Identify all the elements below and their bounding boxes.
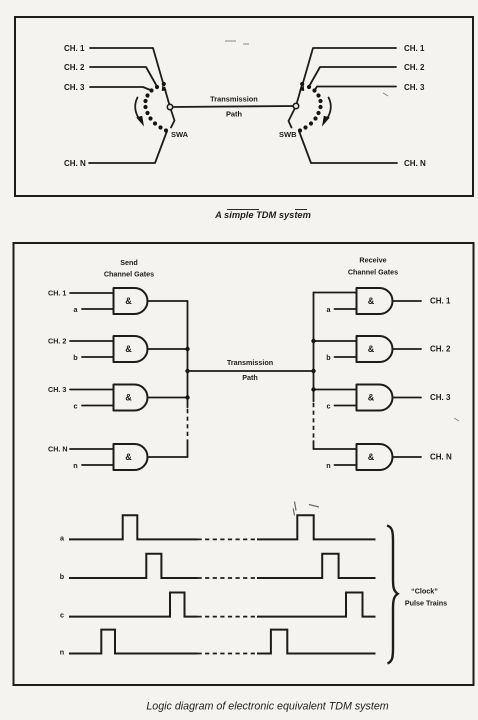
svg-text:CH. 1: CH. 1 bbox=[404, 44, 425, 53]
svg-text:b: b bbox=[60, 572, 65, 581]
svg-text:&: & bbox=[125, 296, 132, 306]
svg-text:“Clock”: “Clock” bbox=[411, 587, 438, 596]
svg-text:&: & bbox=[368, 393, 375, 403]
svg-text:CH. 3: CH. 3 bbox=[48, 385, 66, 394]
svg-text:n: n bbox=[60, 647, 64, 656]
svg-text:CH. 2: CH. 2 bbox=[430, 345, 451, 354]
svg-text:Transmission: Transmission bbox=[227, 358, 273, 367]
svg-text:Channel Gates: Channel Gates bbox=[104, 270, 154, 279]
svg-text:CH. 3: CH. 3 bbox=[404, 83, 425, 92]
svg-text:Path: Path bbox=[226, 110, 243, 119]
svg-text:&: & bbox=[125, 344, 132, 354]
svg-text:&: & bbox=[368, 452, 375, 462]
svg-text:SWA: SWA bbox=[171, 130, 189, 139]
svg-text:&: & bbox=[368, 296, 375, 306]
svg-text:SWB: SWB bbox=[279, 130, 297, 139]
svg-text:CH. N: CH. N bbox=[48, 445, 68, 454]
svg-text:Channel Gates: Channel Gates bbox=[348, 268, 398, 277]
svg-text:A simple TDM system: A simple TDM system bbox=[214, 210, 311, 220]
svg-text:c: c bbox=[74, 402, 78, 411]
svg-text:CH. N: CH. N bbox=[64, 159, 86, 168]
svg-text:CH. 1: CH. 1 bbox=[64, 44, 85, 53]
svg-text:CH. 3: CH. 3 bbox=[430, 393, 451, 402]
svg-text:Path: Path bbox=[242, 373, 258, 382]
svg-text:CH. 1: CH. 1 bbox=[48, 289, 66, 298]
svg-text:CH. N: CH. N bbox=[430, 453, 452, 462]
svg-text:Logic diagram of electronic eq: Logic diagram of electronic equivalent T… bbox=[146, 701, 388, 713]
svg-text:CH. 2: CH. 2 bbox=[48, 337, 66, 346]
svg-text:CH. 3: CH. 3 bbox=[64, 83, 85, 92]
svg-text:c: c bbox=[327, 402, 331, 411]
svg-text:Transmission: Transmission bbox=[210, 95, 258, 104]
svg-text:&: & bbox=[125, 452, 132, 462]
svg-text:CH. N: CH. N bbox=[404, 159, 426, 168]
svg-text:CH. 2: CH. 2 bbox=[404, 63, 425, 72]
svg-text:Pulse Trains: Pulse Trains bbox=[405, 598, 447, 607]
svg-text:n: n bbox=[326, 461, 330, 470]
svg-text:b: b bbox=[326, 353, 331, 362]
svg-text:&: & bbox=[368, 344, 375, 354]
svg-text:CH. 2: CH. 2 bbox=[64, 63, 85, 72]
svg-text:Receive: Receive bbox=[359, 256, 386, 265]
svg-text:&: & bbox=[125, 393, 132, 403]
svg-text:c: c bbox=[60, 611, 64, 620]
svg-text:Send: Send bbox=[120, 258, 138, 267]
svg-text:b: b bbox=[73, 353, 78, 362]
svg-text:n: n bbox=[73, 461, 77, 470]
svg-text:CH. 1: CH. 1 bbox=[430, 297, 451, 306]
